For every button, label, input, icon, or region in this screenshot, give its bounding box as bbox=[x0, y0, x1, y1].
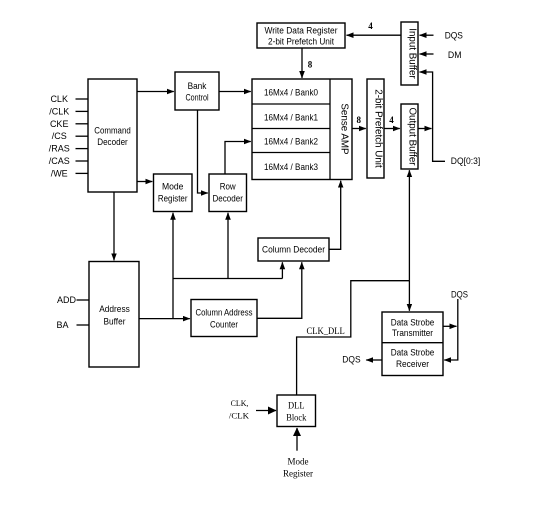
svg-text:/WE: /WE bbox=[51, 168, 68, 178]
svg-text:/CLK: /CLK bbox=[49, 106, 69, 116]
svg-text:16Mx4 / Bank0: 16Mx4 / Bank0 bbox=[264, 88, 318, 98]
svg-text:CLK_DLL: CLK_DLL bbox=[307, 326, 345, 336]
svg-text:DQS: DQS bbox=[445, 31, 463, 41]
svg-text:Register: Register bbox=[158, 194, 188, 204]
svg-text:/CAS: /CAS bbox=[49, 156, 70, 166]
svg-text:Block: Block bbox=[286, 413, 307, 423]
svg-text:Decoder: Decoder bbox=[97, 137, 128, 147]
svg-text:Input Buffer: Input Buffer bbox=[407, 28, 418, 79]
svg-text:ADD: ADD bbox=[57, 295, 77, 305]
svg-text:Register: Register bbox=[283, 468, 313, 478]
svg-text:DQS: DQS bbox=[451, 290, 468, 300]
svg-text:Output Buffer: Output Buffer bbox=[407, 107, 418, 166]
svg-text:Buffer: Buffer bbox=[104, 317, 126, 327]
svg-text:Address: Address bbox=[99, 304, 130, 314]
svg-text:4: 4 bbox=[368, 21, 373, 31]
svg-text:Column Decoder: Column Decoder bbox=[262, 245, 325, 255]
svg-text:Receiver: Receiver bbox=[396, 359, 429, 369]
svg-text:Control: Control bbox=[185, 93, 208, 103]
svg-text:DQS: DQS bbox=[342, 355, 360, 365]
svg-text:8: 8 bbox=[308, 60, 313, 70]
svg-text:Data Strobe: Data Strobe bbox=[391, 348, 435, 358]
svg-text:DQ[0:3]: DQ[0:3] bbox=[451, 156, 480, 166]
svg-text:CLK,: CLK, bbox=[231, 398, 249, 408]
svg-text:Column Address: Column Address bbox=[196, 308, 254, 318]
svg-text:Mode: Mode bbox=[288, 457, 309, 467]
svg-text:8: 8 bbox=[357, 115, 362, 125]
svg-text:2-bit Prefetch Unit: 2-bit Prefetch Unit bbox=[373, 89, 384, 168]
svg-text:BA: BA bbox=[57, 320, 69, 330]
svg-text:16Mx4 / Bank3: 16Mx4 / Bank3 bbox=[264, 162, 318, 172]
svg-text:4: 4 bbox=[389, 115, 394, 125]
svg-text:CLK: CLK bbox=[50, 94, 68, 104]
svg-text:2-bit Prefetch Unit: 2-bit Prefetch Unit bbox=[268, 37, 335, 47]
svg-text:/CLK: /CLK bbox=[229, 410, 250, 420]
svg-text:DM: DM bbox=[448, 50, 462, 60]
svg-text:16Mx4 / Bank1: 16Mx4 / Bank1 bbox=[264, 112, 318, 122]
svg-text:Row: Row bbox=[220, 182, 237, 192]
svg-text:Command: Command bbox=[94, 126, 131, 136]
svg-text:CKE: CKE bbox=[50, 119, 69, 129]
svg-text:/RAS: /RAS bbox=[49, 144, 70, 154]
svg-text:Transmitter: Transmitter bbox=[392, 328, 433, 338]
svg-text:Data Strobe: Data Strobe bbox=[391, 317, 435, 327]
svg-text:16Mx4 / Bank2: 16Mx4 / Bank2 bbox=[264, 137, 318, 147]
svg-text:Counter: Counter bbox=[210, 320, 238, 330]
svg-text:Decoder: Decoder bbox=[212, 194, 243, 204]
svg-text:Bank: Bank bbox=[188, 81, 207, 91]
svg-text:Sense AMP: Sense AMP bbox=[339, 103, 350, 155]
svg-text:/CS: /CS bbox=[52, 131, 67, 141]
svg-text:DLL: DLL bbox=[288, 401, 305, 411]
svg-text:Write Data Register: Write Data Register bbox=[265, 26, 338, 36]
svg-text:Mode: Mode bbox=[162, 182, 184, 192]
